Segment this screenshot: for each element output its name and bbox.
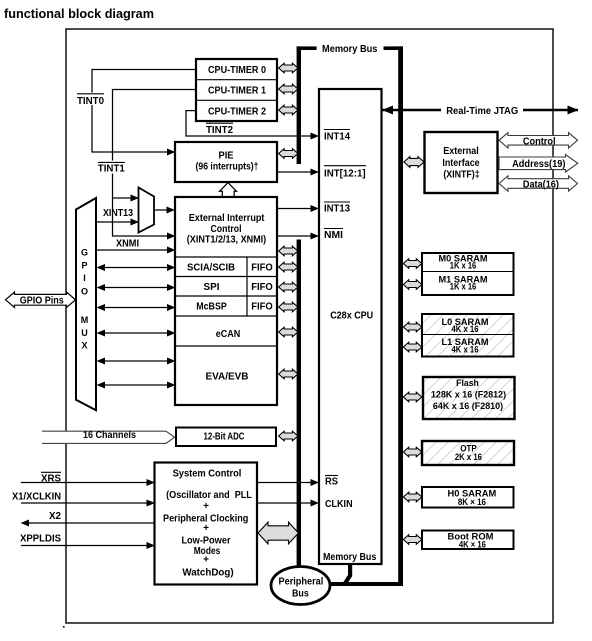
svg-text:Interface: Interface xyxy=(442,158,480,169)
svg-text:External Interrupt: External Interrupt xyxy=(189,213,265,224)
gray bus arrow ADC xyxy=(279,431,298,441)
M0/M1 SARAM block xyxy=(422,253,514,295)
svg-text:(XINTF)‡: (XINTF)‡ xyxy=(443,169,479,180)
svg-text:INT[12:1]: INT[12:1] xyxy=(324,168,366,179)
svg-text:8K × 16: 8K × 16 xyxy=(458,497,486,507)
memory bus left vertical upper segment xyxy=(297,46,301,164)
svg-text:Control: Control xyxy=(523,136,556,147)
svg-text:XINT13: XINT13 xyxy=(103,208,133,219)
gray bus arrow H0 SARAM xyxy=(403,492,422,502)
L0/L1 SARAM block xyxy=(422,314,514,357)
Data(16) hollow double arrow xyxy=(499,176,578,191)
svg-text:INT14: INT14 xyxy=(324,131,350,142)
svg-text:(Oscillator and PLL: (Oscillator and PLL xyxy=(166,490,252,501)
gray bus arrow PIE xyxy=(279,149,298,159)
H0 SARAM block xyxy=(422,487,514,508)
label TINT1 xyxy=(96,161,127,175)
svg-text:FIFO: FIFO xyxy=(251,282,273,293)
gray bus arrow Flash xyxy=(403,392,422,402)
stray dot xyxy=(63,626,65,628)
PIE block xyxy=(175,142,277,182)
CPU-TIMER block xyxy=(196,59,277,121)
svg-text:CPU-TIMER 1: CPU-TIMER 1 xyxy=(208,85,266,97)
svg-text:C28x CPU: C28x CPU xyxy=(330,309,373,321)
svg-text:Low-Power: Low-Power xyxy=(181,536,230,547)
svg-text:NMI: NMI xyxy=(324,230,343,241)
gray bus arrow SPI xyxy=(279,282,298,292)
gray bus arrow SCIA/SCIB xyxy=(279,262,298,272)
wire EVA/EVB upper bidirectional xyxy=(104,360,167,362)
GPIO MUX xyxy=(76,198,96,410)
wire CLKIN from System Control to CPU xyxy=(257,502,311,504)
svg-text:G: G xyxy=(81,248,88,258)
gray bus arrow EVA/EVB xyxy=(279,369,298,379)
svg-text:Address(19): Address(19) xyxy=(512,159,565,170)
svg-text:+: + xyxy=(203,555,209,566)
svg-text:RS: RS xyxy=(325,477,338,488)
svg-text:2K x 16: 2K x 16 xyxy=(455,452,482,462)
System Control block xyxy=(155,463,258,585)
wire SPI bidirectional xyxy=(104,287,167,289)
svg-text:12-Bit ADC: 12-Bit ADC xyxy=(204,431,245,442)
gray bus arrow XINTF xyxy=(404,157,424,168)
svg-text:4K x 16: 4K x 16 xyxy=(452,324,479,334)
svg-text:Real-Time JTAG: Real-Time JTAG xyxy=(446,106,518,117)
svg-text:WatchDog): WatchDog) xyxy=(182,567,233,578)
svg-text:O: O xyxy=(81,286,88,296)
svg-text:16 Channels: 16 Channels xyxy=(83,430,136,441)
label TINT0 xyxy=(76,93,105,107)
svg-text:X1/XCLKIN: X1/XCLKIN xyxy=(12,492,61,503)
Peripheral Bus ellipse xyxy=(271,567,330,605)
Boot ROM block xyxy=(422,531,514,550)
svg-text:Bus: Bus xyxy=(292,588,309,599)
gray bus arrow L0 SARAM xyxy=(403,322,422,332)
hollow arrow from External Interrupt Control to PIE xyxy=(220,183,237,197)
wire XINT13 from GPIO mux to mux xyxy=(96,221,131,223)
svg-text:Peripheral: Peripheral xyxy=(279,577,324,588)
gray bus arrow CPU-TIMER 1 xyxy=(279,84,298,94)
border frame xyxy=(66,29,553,623)
wire TINT1 branch into mux xyxy=(113,197,132,199)
wire PIE to CPU INT[12:1] xyxy=(277,171,311,173)
svg-text:System Control: System Control xyxy=(173,469,242,480)
svg-text:4K × 16: 4K × 16 xyxy=(459,540,486,550)
svg-text:TINT2: TINT2 xyxy=(206,125,233,136)
svg-text:XRS: XRS xyxy=(41,474,61,485)
svg-text:FIFO: FIFO xyxy=(251,302,273,313)
wire RS from System Control to CPU xyxy=(257,482,311,484)
memory bus bottom stem from CPU xyxy=(345,564,350,584)
svg-text:128K x 16 (F2812): 128K x 16 (F2812) xyxy=(431,390,506,400)
gray bus arrow System Control (large) xyxy=(258,522,299,544)
wire XPPLDIS input xyxy=(21,545,147,547)
wire XNMI from GPIO mux to External Interrupt Control xyxy=(96,249,167,251)
svg-text:TINT1: TINT1 xyxy=(98,164,125,175)
gray bus arrow M1 SARAM xyxy=(403,280,422,290)
svg-text:1K x 16: 1K x 16 xyxy=(450,261,477,271)
svg-text:4K x 16: 4K x 16 xyxy=(452,345,479,355)
svg-text:CPU-TIMER 0: CPU-TIMER 0 xyxy=(208,64,266,76)
Control hollow double arrow xyxy=(499,133,578,148)
gray bus arrow CPU-TIMER 2 xyxy=(279,105,298,115)
wire eCAN bidirectional xyxy=(104,332,167,334)
gray bus arrow M0 SARAM xyxy=(403,259,422,269)
External Interface XINTF block xyxy=(425,132,498,193)
svg-text:+: + xyxy=(203,523,209,534)
svg-text:FIFO: FIFO xyxy=(251,263,273,274)
wire X2 output xyxy=(29,522,257,524)
memory bus top horizontal right segment xyxy=(384,46,404,50)
svg-text:TINT0: TINT0 xyxy=(77,96,104,107)
svg-text:X: X xyxy=(81,341,87,351)
gray bus arrow Boot ROM xyxy=(403,535,422,545)
C28x CPU block xyxy=(319,89,382,564)
wire mux output to External Interrupt Control xyxy=(154,209,167,211)
svg-text:INT13: INT13 xyxy=(324,204,350,215)
External Interrupt Control block xyxy=(175,197,277,405)
wire TINT1 from CPU-TIMER 1 down to External Interrupt Control xyxy=(113,90,197,237)
svg-text:McBSP: McBSP xyxy=(196,302,227,313)
wire Real-Time JTAG double arrow xyxy=(382,103,579,117)
svg-text:External: External xyxy=(443,146,479,157)
gray bus arrow L1 SARAM xyxy=(403,342,422,352)
memory bus top horizontal left segment xyxy=(297,46,317,50)
wire TINT2 from CPU-TIMER 2 to CPU INT14 xyxy=(186,111,311,136)
gray bus arrow McBSP xyxy=(279,302,298,312)
svg-text:GPIO Pins: GPIO Pins xyxy=(20,295,64,306)
peripheral bus left vertical lower segment xyxy=(297,240,301,568)
OTP block xyxy=(422,441,514,465)
svg-text:EVA/EVB: EVA/EVB xyxy=(206,372,249,383)
gray bus arrow CPU-TIMER 0 xyxy=(279,63,298,73)
svg-text:Memory Bus: Memory Bus xyxy=(322,44,378,55)
wire X1/XCLKIN input xyxy=(21,502,147,504)
svg-text:+: + xyxy=(203,501,209,512)
label TINT2 xyxy=(206,123,233,136)
svg-text:X2: X2 xyxy=(49,511,61,522)
wire SCIA/SCIB bidirectional xyxy=(104,267,167,269)
svg-text:eCAN: eCAN xyxy=(216,329,241,340)
svg-text:CPU-TIMER 2: CPU-TIMER 2 xyxy=(208,105,266,117)
wire ExtInt to CPU NMI xyxy=(277,235,311,237)
Address(19) hollow arrow xyxy=(499,155,578,172)
svg-text:functional block diagram: functional block diagram xyxy=(4,7,154,21)
wire EVA/EVB lower bidirectional xyxy=(104,384,167,386)
peripheral bus bottom horizontal xyxy=(329,582,403,586)
wire McBSP bidirectional xyxy=(104,307,167,309)
gray bus arrow ExtInt section xyxy=(279,246,298,256)
svg-text:I: I xyxy=(83,273,86,283)
svg-text:64K x 16 (F2810): 64K x 16 (F2810) xyxy=(433,401,503,411)
svg-text:Flash: Flash xyxy=(456,378,479,388)
svg-text:XPPLDIS: XPPLDIS xyxy=(20,534,61,545)
svg-text:(96 interrupts)†: (96 interrupts)† xyxy=(196,161,259,172)
wire TINT0 from CPU-TIMER 0 to PIE xyxy=(92,70,196,153)
12-Bit ADC block xyxy=(176,428,276,447)
memory bus right vertical xyxy=(398,46,403,586)
gray bus arrow eCAN xyxy=(279,327,298,337)
svg-text:CLKIN: CLKIN xyxy=(325,499,353,510)
gray bus arrow OTP xyxy=(403,447,422,457)
svg-text:P: P xyxy=(81,260,87,270)
mux trapezoid TINT1/XINT13 xyxy=(139,188,155,233)
svg-text:1K x 16: 1K x 16 xyxy=(450,282,477,292)
16 Channels hollow arrow xyxy=(42,430,175,443)
svg-text:Control: Control xyxy=(211,224,242,235)
svg-text:SPI: SPI xyxy=(204,282,220,293)
GPIO Pins hollow double arrow xyxy=(6,292,76,307)
svg-text:(XINT1/2/13, XNMI): (XINT1/2/13, XNMI) xyxy=(187,234,266,245)
svg-text:PIE: PIE xyxy=(219,151,234,162)
wire XRS input xyxy=(21,482,147,484)
svg-text:Memory Bus: Memory Bus xyxy=(323,552,377,563)
label XRS xyxy=(41,472,61,484)
svg-text:M: M xyxy=(81,315,89,325)
Flash block xyxy=(423,377,515,419)
svg-text:U: U xyxy=(81,328,88,338)
wire ExtInt to CPU INT13 xyxy=(277,208,311,210)
svg-text:Data(16): Data(16) xyxy=(523,179,559,190)
svg-text:XNMI: XNMI xyxy=(116,239,139,250)
svg-text:SCIA/SCIB: SCIA/SCIB xyxy=(187,263,235,274)
